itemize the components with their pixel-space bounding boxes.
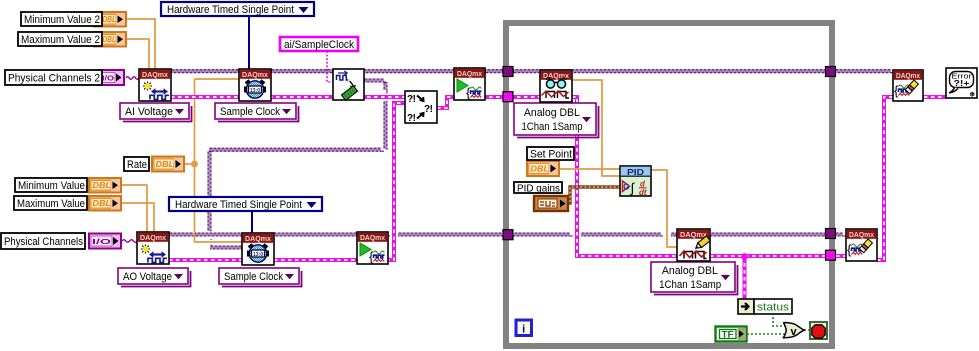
- svg-text:?!: ?!: [424, 104, 433, 115]
- tunnel: AO task left: [503, 230, 513, 240]
- control: Physical Channels 2: [5, 70, 124, 85]
- svg-text:1Chan 1Samp: 1Chan 1Samp: [659, 279, 721, 291]
- control: PID gains: [534, 196, 568, 211]
- wire: Physical Channels to AO Create (I/O wavy): [122, 240, 137, 243]
- wire: Minimum Value 2 to AI Create: [127, 19, 155, 69]
- svg-text:Maximum Value 2: Maximum Value 2: [21, 34, 100, 46]
- svg-text:DBL: DBL: [156, 160, 175, 169]
- while loop border: [506, 23, 832, 346]
- wire: Minimum Value to AO Create: [121, 185, 147, 232]
- control: Set Point: [527, 147, 574, 176]
- boolean constant TF: [716, 327, 747, 342]
- ring: Sample Clock (AI): [215, 103, 299, 122]
- wire: Read data to PID PV: [572, 80, 620, 176]
- wire: AO task (braided) from Create to Clear: [169, 233, 846, 236]
- tunnel: error right: [826, 250, 836, 260]
- svg-text:DBL: DBL: [93, 181, 112, 190]
- svg-text:PID: PID: [627, 167, 644, 177]
- tunnel: AI task right: [826, 67, 836, 77]
- wire: enum2 to AO Timing (blue): [251, 211, 253, 233]
- VI: Simple Error Handler: [946, 68, 977, 99]
- VI: DAQmx Timing (AI): [239, 69, 271, 101]
- svg-text:DAQmx: DAQmx: [142, 70, 169, 79]
- wire: PID gains cluster wire: [567, 187, 620, 203]
- svg-text:?!: ?!: [407, 94, 416, 105]
- unbundle by name: status: [738, 299, 792, 314]
- wire: AI task (braided) from Create to Clear: [171, 70, 893, 73]
- svg-text:ai/SampleClock: ai/SampleClock: [284, 39, 354, 51]
- tunnel: AI task left: [503, 67, 513, 77]
- enum: Hardware Timed Single Point (AO): [169, 197, 322, 211]
- wire: error branch to status unbundle: [743, 256, 747, 299]
- control: Rate: [124, 157, 184, 172]
- svg-text:DAQmx: DAQmx: [140, 233, 167, 242]
- control: Physical Channels: [1, 233, 121, 249]
- svg-text:Sample Clock: Sample Clock: [224, 271, 284, 283]
- wire: rate orange riser and branches: [184, 79, 242, 242]
- svg-text:?!: ?!: [407, 113, 416, 124]
- wire: error AO Clear up to AI Clear and handler: [877, 97, 946, 260]
- VI: Merge Errors: [405, 91, 437, 124]
- wire: error Write->AO Clear through tunnel: [710, 254, 846, 258]
- svg-text:?!+: ?!+: [954, 78, 970, 88]
- svg-text:status: status: [757, 302, 790, 314]
- ring: Analog DBL 1Chan 1Samp (Write): [651, 262, 738, 295]
- svg-text:i: i: [522, 324, 525, 336]
- wire: Set Point to PID: [560, 168, 620, 170]
- svg-text:Maximum Value: Maximum Value: [17, 198, 85, 210]
- svg-text:PID gains: PID gains: [517, 182, 560, 194]
- ring: AI Voltage: [120, 103, 192, 122]
- VI: DAQmx Create Virtual Channel (AI): [139, 69, 171, 101]
- svg-text:DBL: DBL: [93, 199, 112, 208]
- ring: AO Voltage: [118, 268, 191, 287]
- svg-text:Set Point: Set Point: [530, 148, 572, 160]
- svg-text:DAQmx: DAQmx: [896, 71, 921, 80]
- ring: Sample Clock (AO): [219, 268, 302, 287]
- OR gate: [784, 323, 805, 338]
- VI: DAQmx Start Task (AO): [357, 232, 388, 264]
- tunnel: error left: [503, 92, 513, 102]
- wire: ai/SampleClock string to Export Signal (dotted): [327, 51, 333, 82]
- iteration terminal i: [516, 320, 532, 336]
- svg-text:Analog DBL: Analog DBL: [662, 265, 718, 277]
- loop stop condition terminal: [810, 322, 827, 339]
- VI: PID: [620, 166, 651, 197]
- wire: PID output to Write: [651, 170, 677, 247]
- svg-text:dt: dt: [639, 188, 647, 197]
- control: Maximum Value 2: [18, 32, 126, 47]
- wire: Physical Channels 2 to AI Create (I/O wavy): [126, 77, 139, 80]
- svg-text:AI Voltage: AI Voltage: [125, 106, 173, 118]
- VI: DAQmx Start Task (AI): [454, 68, 485, 100]
- tunnel: AO task right: [826, 229, 836, 239]
- svg-text:DAQmx: DAQmx: [849, 230, 875, 239]
- svg-text:Hardware Timed Single Point: Hardware Timed Single Point: [167, 4, 294, 16]
- control: Maximum Value: [14, 196, 121, 211]
- svg-text:v: v: [790, 326, 797, 338]
- svg-text:I/O: I/O: [92, 237, 111, 246]
- wire: AI error row: [171, 95, 405, 99]
- svg-text:DAQmx: DAQmx: [457, 69, 483, 78]
- svg-text:TF: TF: [722, 330, 735, 340]
- wire: error inside loop Read->Write: [572, 97, 677, 256]
- svg-text:DBL: DBL: [103, 35, 117, 44]
- VI: DAQmx Read: [540, 70, 572, 102]
- control: Minimum Value 2: [21, 12, 126, 27]
- constant: ai/SampleClock string: [280, 37, 358, 51]
- svg-text:Physical Channels 2: Physical Channels 2: [8, 72, 100, 84]
- VI: DAQmx Timing (AO): [242, 233, 274, 265]
- wire: Maximum Value 2 to AI Create: [127, 39, 149, 69]
- svg-text:Minimum Value: Minimum Value: [18, 180, 85, 192]
- svg-text:✽: ✽: [970, 91, 976, 99]
- svg-text:I/O: I/O: [102, 74, 114, 83]
- VI: DAQmx Create Virtual Channel (AO): [137, 232, 169, 264]
- svg-text:DBL: DBL: [531, 165, 550, 174]
- svg-text:DAQmx: DAQmx: [360, 233, 386, 242]
- VI: DAQmx Clear Task (AI): [893, 70, 923, 101]
- wire: OR to stop terminal: [804, 329, 811, 331]
- svg-text:Sample Clock: Sample Clock: [220, 106, 281, 118]
- svg-text:Analog DBL: Analog DBL: [524, 107, 580, 119]
- enum: Hardware Timed Single Point (AI): [161, 2, 314, 16]
- svg-text:DAQmx: DAQmx: [242, 70, 269, 79]
- ring: Analog DBL 1Chan 1Samp (Read): [514, 103, 599, 138]
- wire: AO error row to merge: [169, 103, 405, 260]
- svg-text:G: G: [623, 183, 629, 192]
- wire: enum1 to AI Timing (blue): [248, 16, 250, 69]
- svg-text:13:0: 13:0: [253, 252, 263, 258]
- svg-text:1Chan 1Samp: 1Chan 1Samp: [522, 121, 583, 133]
- svg-text:13:0: 13:0: [250, 88, 260, 94]
- VI: DAQmx Write: [677, 229, 710, 261]
- wire: TF to OR: [747, 333, 785, 335]
- svg-text:DAQmx: DAQmx: [245, 234, 272, 243]
- svg-text:Physical Channels: Physical Channels: [4, 236, 84, 248]
- wire: AI task branch via Export Signal down to AO Timing source: [208, 79, 387, 249]
- VI: DAQmx Clear Task (AO): [846, 229, 877, 261]
- wire: Maximum Value to AO Create: [121, 203, 154, 232]
- svg-text:Rate: Rate: [127, 159, 147, 171]
- control: Minimum Value: [15, 178, 121, 193]
- svg-text:Minimum Value 2: Minimum Value 2: [24, 14, 100, 26]
- svg-text:Hardware Timed Single Point: Hardware Timed Single Point: [175, 199, 302, 211]
- wire: status to OR (green dotted): [773, 313, 785, 326]
- VI: DAQmx Export Signal: [333, 69, 364, 100]
- svg-text:AO Voltage: AO Voltage: [123, 271, 172, 283]
- svg-text:DBL: DBL: [103, 15, 117, 24]
